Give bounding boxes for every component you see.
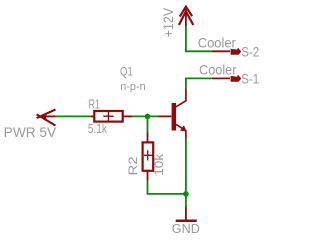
supply +12V (179, 7, 193, 27)
wire collector to S-1 (186, 78, 212, 88)
connector PWR 5V arrow (37, 110, 56, 126)
svg-text:Cooler: Cooler (198, 35, 236, 51)
resistor R1 (91, 111, 133, 122)
ground (176, 207, 197, 221)
wire node down to R2 (147, 116, 149, 132)
svg-text:R1: R1 (89, 97, 101, 111)
svg-text:n-p-n: n-p-n (120, 81, 146, 93)
svg-text:S-2: S-2 (241, 43, 259, 59)
base pin (159, 115, 172, 117)
svg-text:S-1: S-1 (241, 71, 259, 87)
wire emitter down to gnd (185, 139, 187, 207)
junction node base (145, 114, 151, 120)
resistor R2 (143, 133, 154, 181)
svg-text:Q1: Q1 (120, 66, 133, 78)
svg-text:5.1k: 5.1k (88, 121, 107, 136)
wire R2 bottom to gnd rail (148, 181, 186, 194)
wire PWR to R1 (55, 115, 91, 117)
junction node gnd (183, 191, 189, 197)
emitter (176, 124, 186, 138)
svg-text:10k: 10k (152, 153, 166, 176)
svg-text:PWR 5V: PWR 5V (4, 125, 57, 140)
svg-text:R2: R2 (126, 156, 140, 175)
transistor Q1 (159, 89, 187, 139)
emitter arrow (180, 125, 187, 131)
svg-text:GND: GND (172, 221, 200, 236)
connector S-2 arrow (212, 48, 242, 55)
svg-text:Cooler: Cooler (199, 62, 237, 78)
wire R1 to base node (133, 115, 159, 117)
svg-text:+12V: +12V (160, 7, 176, 37)
wire +12V to S-2 corner (186, 26, 212, 51)
base bar (172, 103, 177, 131)
connector S-1 arrow (212, 75, 242, 82)
collector (176, 89, 186, 107)
